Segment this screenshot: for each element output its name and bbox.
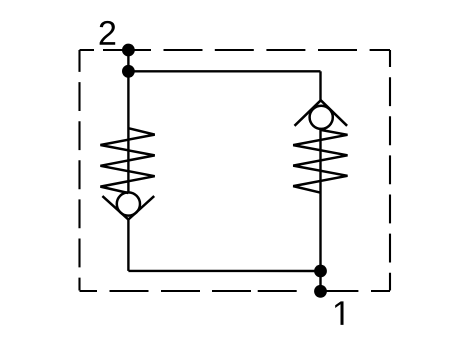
spring of right check valve	[293, 130, 347, 193]
check valve seat left	[102, 196, 154, 219]
wire port1 stub	[319, 271, 321, 291]
wire right branch lower	[319, 130, 321, 271]
node junction top	[122, 65, 135, 78]
wire left branch upper	[127, 71, 129, 191]
dashed enclosure border bottom	[80, 290, 391, 292]
dashed enclosure border left	[78, 50, 80, 291]
node junction bottom	[314, 265, 327, 278]
port label 2	[100, 21, 116, 45]
wire right branch upper	[319, 71, 321, 100]
port label 1	[335, 301, 343, 325]
check valve ball left	[117, 192, 140, 215]
wire top horizontal	[128, 70, 320, 72]
wire port2 stub	[127, 50, 129, 71]
check valve ball right	[310, 106, 333, 129]
dashed enclosure border right	[389, 50, 391, 291]
node port 2 (on border)	[122, 44, 135, 57]
dashed enclosure border top	[80, 49, 391, 51]
wire left branch lower	[127, 220, 129, 271]
spring of left check valve	[100, 128, 154, 193]
node port 1 (on border)	[314, 285, 327, 298]
check valve seat right	[295, 100, 348, 126]
wire bottom horizontal	[128, 270, 320, 273]
